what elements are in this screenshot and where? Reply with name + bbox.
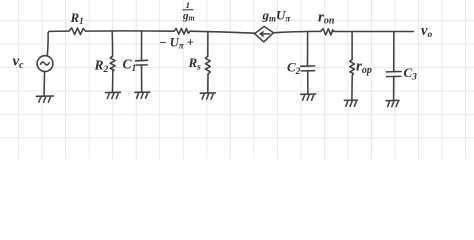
ground (r_op) — [344, 100, 357, 106]
wire source to ground — [43, 71, 46, 95]
svg-text:− Uπ +: − Uπ + — [159, 36, 194, 51]
wire R1 to 1/gm — [86, 30, 175, 32]
svg-text:vc: vc — [13, 54, 25, 72]
grid paper background — [0, 0, 474, 159]
svg-text:vo: vo — [421, 23, 432, 40]
dependent current source gmUpi — [255, 26, 274, 42]
ground (R2) — [106, 92, 121, 98]
wire r_on to output — [334, 30, 414, 32]
label 1/gm fraction — [182, 0, 195, 23]
svg-text:gmUπ: gmUπ — [262, 8, 292, 24]
svg-text:rop: rop — [356, 59, 372, 77]
svg-text:gm: gm — [182, 10, 195, 23]
voltage source Vc — [37, 56, 53, 72]
capacitor C1 — [136, 31, 148, 92]
svg-text:Rs: Rs — [188, 55, 202, 73]
svg-text:R2: R2 — [94, 58, 109, 76]
ground (C3) — [386, 100, 399, 106]
ground (source) — [37, 96, 54, 102]
wire 1/gm to diamond — [190, 31, 255, 33]
resistor Rs — [205, 31, 210, 93]
resistor R1 — [67, 28, 86, 35]
wire source riser — [47, 31, 66, 56]
ground (C1) — [135, 92, 150, 98]
wire diamond to r_on — [273, 31, 320, 32]
resistor r_on — [321, 29, 334, 35]
resistor R2 — [110, 31, 115, 92]
ground (Rs) — [200, 93, 215, 99]
ground (C2) — [301, 94, 316, 100]
svg-text:C2: C2 — [287, 60, 301, 78]
resistor r_op — [350, 32, 355, 101]
svg-text:R1: R1 — [70, 10, 84, 26]
svg-text:ron: ron — [318, 10, 335, 27]
svg-text:C1: C1 — [123, 57, 137, 75]
svg-text:1: 1 — [186, 0, 190, 10]
resistor 1/gm — [174, 28, 190, 34]
capacitor C2 — [301, 32, 315, 94]
capacitor C3 — [386, 32, 401, 101]
